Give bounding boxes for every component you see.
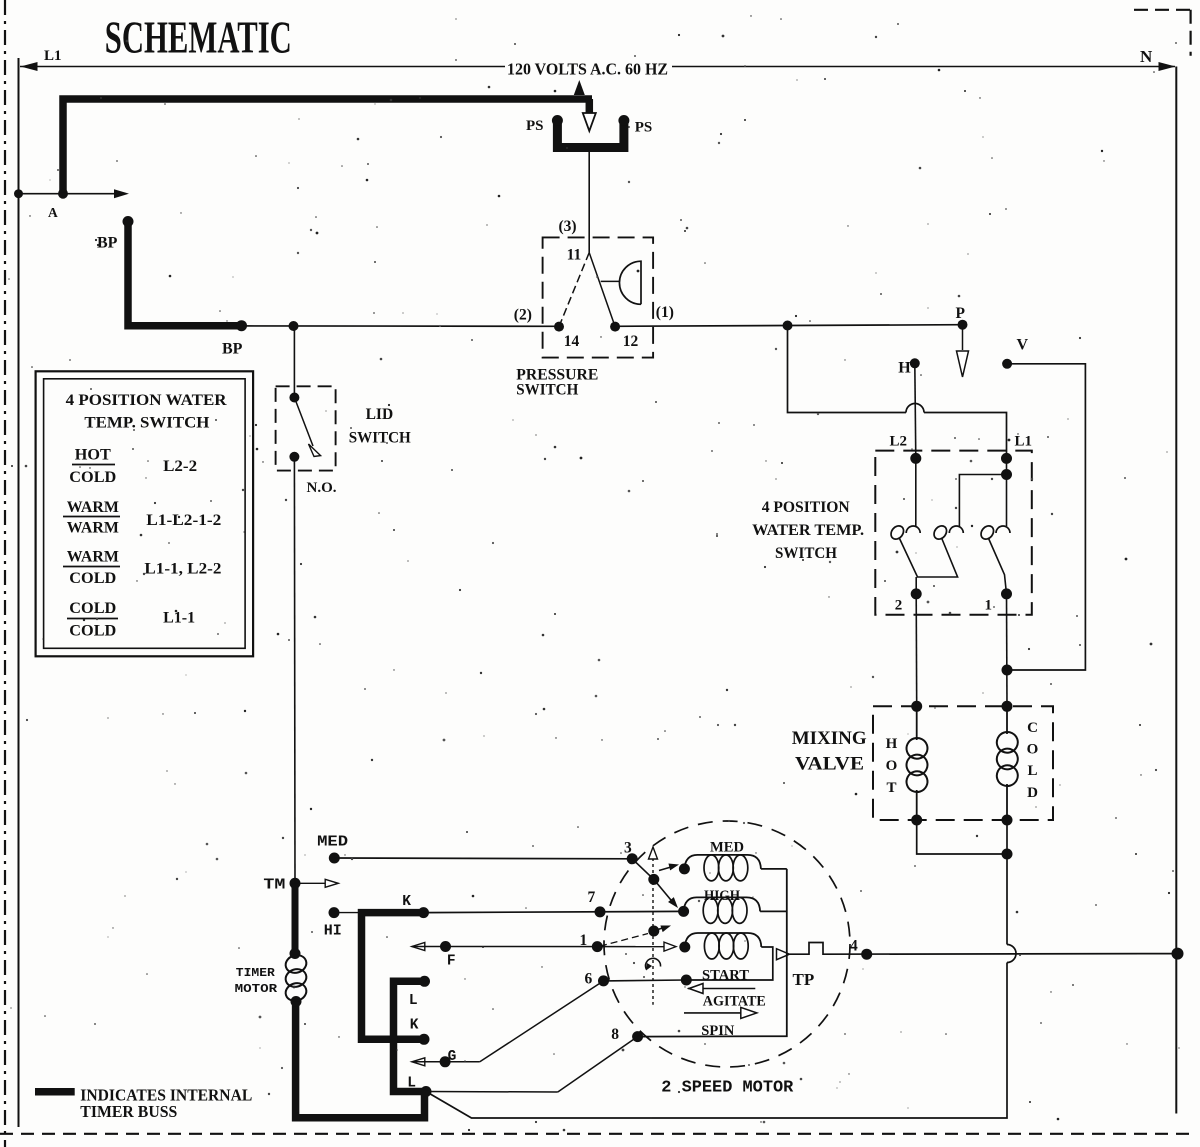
svg-text:L2: L2 xyxy=(890,434,908,450)
svg-text:VALVE: VALVE xyxy=(795,754,864,775)
svg-text:O: O xyxy=(886,758,898,774)
svg-text:SPIN: SPIN xyxy=(701,1023,734,1039)
svg-text:COLD: COLD xyxy=(69,623,116,640)
svg-text:COLD: COLD xyxy=(69,600,116,617)
svg-text:SWITCH: SWITCH xyxy=(516,382,579,399)
svg-text:K: K xyxy=(402,894,411,910)
svg-text:14: 14 xyxy=(564,333,580,350)
svg-text:L1-1: L1-1 xyxy=(163,609,195,626)
svg-text:HOT: HOT xyxy=(75,446,111,463)
svg-text:L1: L1 xyxy=(1015,434,1033,450)
svg-text:PS: PS xyxy=(526,118,544,134)
svg-text:COLD: COLD xyxy=(69,570,116,587)
svg-text:4: 4 xyxy=(850,938,858,955)
svg-text:4 POSITION: 4 POSITION xyxy=(762,499,850,516)
svg-text:O: O xyxy=(1027,742,1039,758)
svg-text:WATER TEMP.: WATER TEMP. xyxy=(752,522,864,539)
svg-text:V: V xyxy=(1017,337,1029,354)
svg-text:7: 7 xyxy=(588,889,596,906)
svg-text:2 SPEED MOTOR: 2 SPEED MOTOR xyxy=(661,1078,793,1097)
svg-text:AGITATE: AGITATE xyxy=(703,994,766,1010)
svg-text:120 VOLTS A.C. 60 HZ: 120 VOLTS A.C. 60 HZ xyxy=(507,60,668,79)
svg-text:MED: MED xyxy=(710,840,744,856)
svg-text:T: T xyxy=(886,780,896,796)
svg-text:HIGH: HIGH xyxy=(704,888,740,904)
svg-text:TEMP. SWITCH: TEMP. SWITCH xyxy=(84,414,210,431)
svg-text:WARM: WARM xyxy=(67,519,119,536)
svg-text:L1-L2-1-2: L1-L2-1-2 xyxy=(146,512,221,529)
svg-text:MIXING: MIXING xyxy=(792,728,867,749)
svg-text:P: P xyxy=(956,305,966,322)
svg-text:12: 12 xyxy=(623,333,639,350)
svg-text:N.O.: N.O. xyxy=(307,480,337,496)
svg-text:WARM: WARM xyxy=(67,549,119,566)
svg-text:11: 11 xyxy=(567,247,582,264)
svg-text:BP: BP xyxy=(97,235,118,252)
svg-text:L: L xyxy=(409,993,418,1009)
svg-text:K: K xyxy=(410,1018,419,1034)
svg-text:8: 8 xyxy=(611,1026,619,1043)
svg-text:BP: BP xyxy=(222,341,243,358)
svg-text:(1): (1) xyxy=(656,304,674,321)
svg-text:A: A xyxy=(48,205,58,220)
svg-text:TIMER BUSS: TIMER BUSS xyxy=(80,1102,177,1121)
svg-text:L1-1, L2-2: L1-1, L2-2 xyxy=(144,561,221,578)
svg-text:L1: L1 xyxy=(44,48,62,64)
svg-text:H: H xyxy=(886,736,898,752)
svg-text:TP: TP xyxy=(793,970,815,989)
svg-text:MOTOR: MOTOR xyxy=(235,982,278,996)
svg-text:SWITCH: SWITCH xyxy=(349,430,411,447)
svg-text:2: 2 xyxy=(895,598,903,614)
svg-text:COLD: COLD xyxy=(69,469,116,486)
svg-text:LID: LID xyxy=(366,406,394,423)
svg-text:6: 6 xyxy=(585,971,593,988)
svg-text:3: 3 xyxy=(624,840,632,857)
svg-text:TM: TM xyxy=(263,877,285,894)
svg-text:PS: PS xyxy=(635,120,653,136)
svg-text:N: N xyxy=(1140,47,1153,66)
svg-text:TIMER: TIMER xyxy=(236,966,276,980)
svg-text:START: START xyxy=(702,968,749,984)
svg-text:C: C xyxy=(1027,720,1038,736)
svg-text:(2): (2) xyxy=(514,307,532,324)
svg-text:MED: MED xyxy=(317,834,348,851)
svg-text:SWITCH: SWITCH xyxy=(775,545,838,562)
svg-text:SCHEMATIC: SCHEMATIC xyxy=(105,12,292,63)
svg-text:4 POSITION WATER: 4 POSITION WATER xyxy=(66,392,227,409)
svg-text:L2-2: L2-2 xyxy=(163,458,197,475)
svg-text:1: 1 xyxy=(580,932,588,949)
svg-text:D: D xyxy=(1027,785,1038,801)
svg-text:L: L xyxy=(1027,763,1037,779)
svg-text:(3): (3) xyxy=(559,218,577,235)
svg-text:H: H xyxy=(898,360,911,377)
svg-text:F: F xyxy=(447,954,456,970)
svg-text:1: 1 xyxy=(985,598,993,614)
svg-text:HI: HI xyxy=(324,923,342,940)
svg-text:WARM: WARM xyxy=(67,499,119,516)
